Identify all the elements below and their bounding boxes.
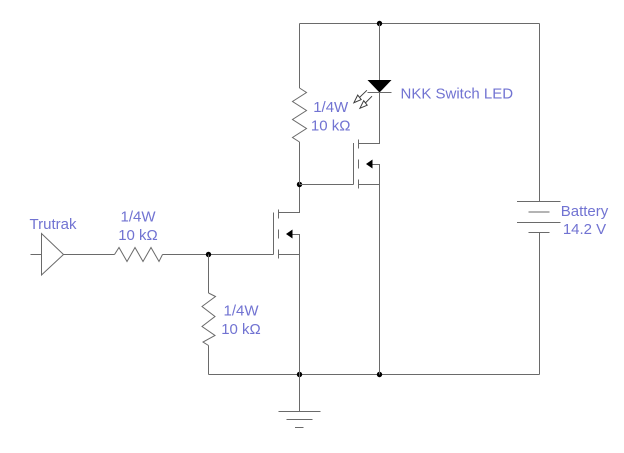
svg-text:1/4W: 1/4W [313, 99, 349, 116]
channel dash body [278, 230, 280, 239]
wire top rail (V+ net) [300, 23, 540, 25]
svg-text:Battery: Battery [561, 203, 609, 220]
wire R2 to bottom rail [208, 346, 210, 375]
svg-text:10 kΩ: 10 kΩ [221, 321, 261, 338]
LED light arrow 1 [354, 90, 367, 102]
label R3 value 1/4W 10 kOhm [311, 99, 351, 134]
wire top rail down to R3 [299, 24, 301, 89]
node Q1 drain / R3 / Q2 gate junction [297, 182, 302, 187]
body arrow [286, 230, 293, 239]
body lead [373, 165, 380, 185]
channel dash source [358, 180, 360, 189]
node bottom rail / Q1 source junction [297, 372, 302, 377]
LED triangle [368, 80, 392, 93]
svg-text:14.2 V: 14.2 V [563, 221, 606, 238]
ground [279, 375, 321, 428]
channel dash drain [358, 140, 360, 149]
wire junction down to R2 [208, 255, 210, 294]
svg-text:1/4W: 1/4W [120, 209, 156, 226]
battery B1 [517, 202, 561, 233]
wire anode from top rail [379, 24, 381, 81]
body lead [293, 235, 300, 255]
svg-text:NKK Switch LED: NKK Switch LED [401, 85, 514, 102]
node gate/R2 junction [206, 252, 211, 257]
svg-text:10 kΩ: 10 kΩ [311, 118, 351, 135]
wire buffer output to R1 [64, 254, 115, 256]
svg-text:Trutrak: Trutrak [30, 216, 77, 233]
svg-text:10 kΩ: 10 kΩ [118, 227, 158, 244]
transistor Q1 (N-MOSFET) [274, 185, 300, 375]
channel dash source [278, 250, 280, 259]
drain lead [359, 93, 380, 144]
LED light arrow 2 [360, 96, 372, 108]
channel dash drain [278, 210, 280, 219]
body arrow [366, 160, 373, 169]
channel dash body [358, 160, 360, 169]
resistor R1 [115, 248, 163, 262]
label R1 value 1/4W 10 kOhm [118, 209, 158, 244]
LED cathode bar [368, 92, 392, 94]
source lead [279, 255, 300, 375]
wire R1 to Q1 gate [163, 254, 274, 256]
node top-rail junction [377, 21, 382, 26]
wire right rail upper (battery +) [539, 24, 541, 202]
transistor Q2 (N-MOSFET) [354, 93, 380, 375]
drain lead [279, 185, 300, 213]
resistor R2 [202, 293, 216, 346]
buffer U1 Trutrak (input driver) [31, 234, 64, 276]
LED D1 [354, 24, 392, 109]
label Battery 14.2 V [561, 203, 609, 238]
wire junction to Q2 gate [300, 184, 354, 186]
wire right rail lower (battery -) [539, 233, 541, 375]
svg-text:1/4W: 1/4W [223, 302, 259, 319]
wire bottom rail (ground net) [209, 374, 540, 376]
source lead [359, 185, 380, 375]
gate line [353, 143, 355, 185]
label R2 value 1/4W 10 kOhm [221, 302, 261, 337]
resistor R3 [293, 88, 307, 142]
node bottom rail / Q2 source junction [377, 372, 382, 377]
wire R3 to Q1 drain junction [299, 142, 301, 185]
gate line [273, 213, 275, 255]
